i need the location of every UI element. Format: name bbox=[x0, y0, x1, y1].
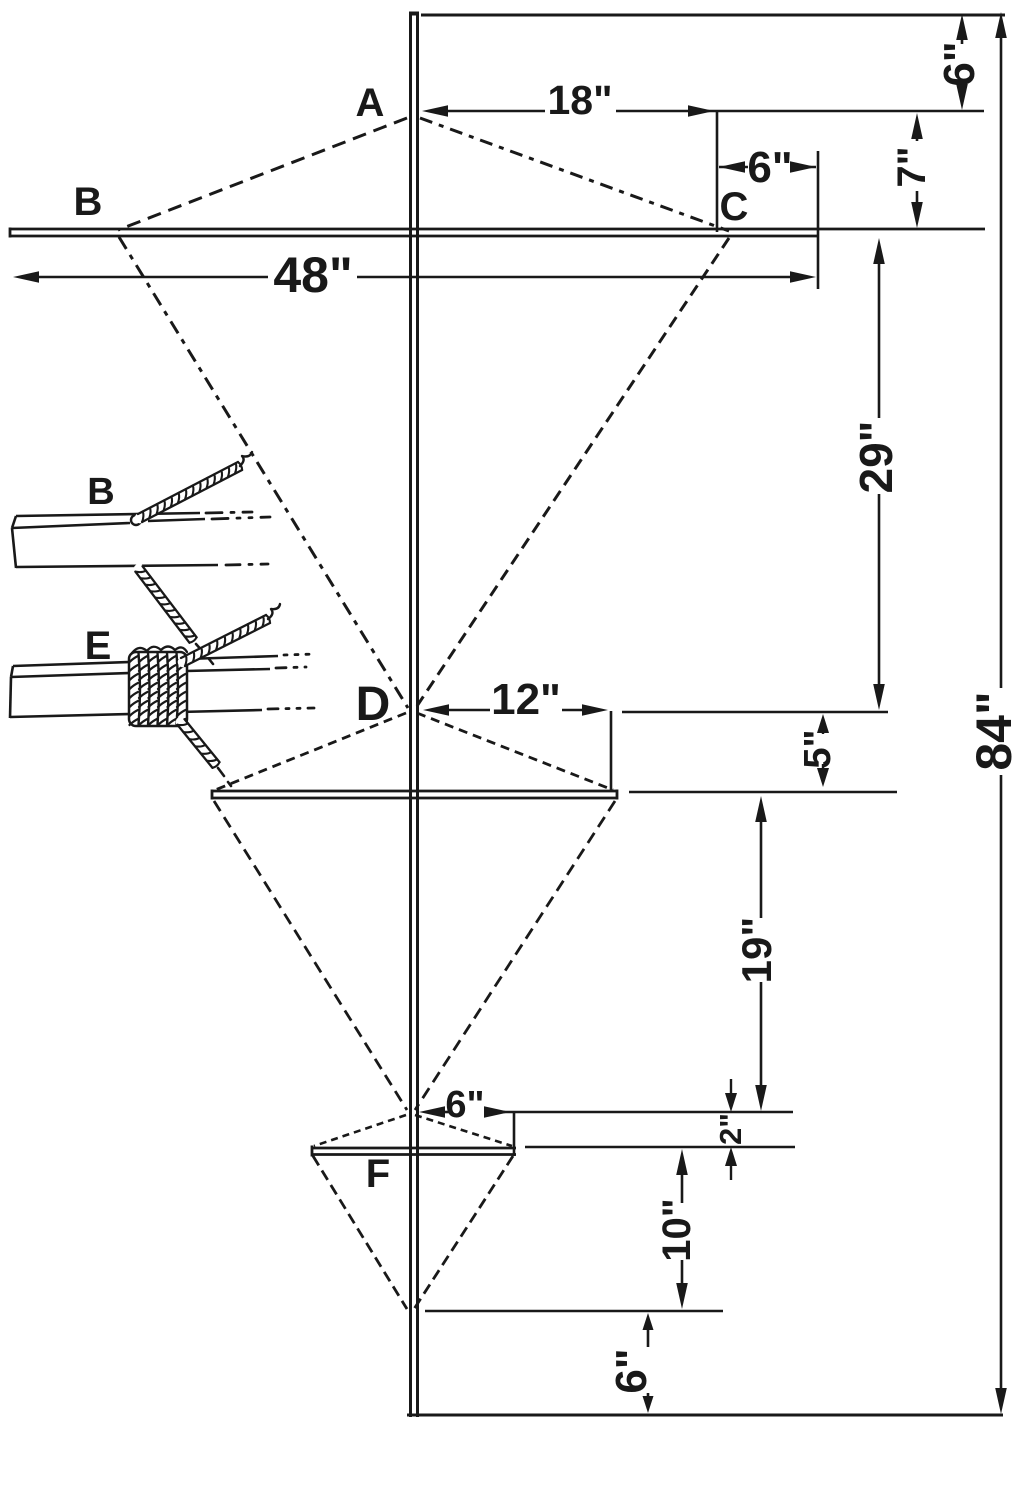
svg-text:6": 6" bbox=[747, 143, 792, 192]
svg-text:6": 6" bbox=[607, 1348, 656, 1393]
svg-text:B: B bbox=[87, 471, 114, 513]
svg-text:D: D bbox=[356, 678, 391, 731]
svg-text:A: A bbox=[356, 81, 385, 125]
svg-text:29": 29" bbox=[850, 421, 902, 494]
svg-text:E: E bbox=[85, 624, 112, 668]
svg-text:F: F bbox=[366, 1152, 390, 1196]
svg-text:84": 84" bbox=[966, 691, 1022, 770]
svg-text:10": 10" bbox=[655, 1198, 699, 1261]
svg-text:7": 7" bbox=[890, 146, 934, 187]
svg-text:C: C bbox=[720, 185, 749, 229]
svg-text:2": 2" bbox=[713, 1113, 748, 1145]
svg-text:19": 19" bbox=[733, 917, 780, 984]
svg-text:B: B bbox=[74, 180, 103, 224]
svg-text:18": 18" bbox=[547, 77, 612, 123]
svg-text:5": 5" bbox=[797, 729, 839, 768]
svg-text:6": 6" bbox=[935, 41, 984, 86]
svg-text:48": 48" bbox=[273, 247, 352, 303]
svg-text:6": 6" bbox=[445, 1084, 484, 1126]
svg-text:12": 12" bbox=[491, 675, 561, 724]
